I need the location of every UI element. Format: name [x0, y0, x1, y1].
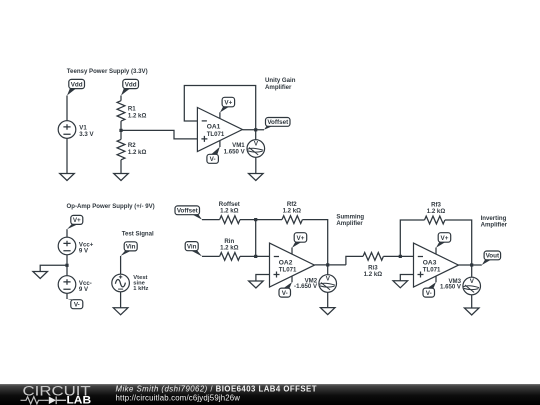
- wire Voffset to Roffset: [202, 219, 220, 221]
- svg-text:Op-Amp Power Supply (+/- 9V): Op-Amp Power Supply (+/- 9V): [67, 203, 155, 210]
- wire OA3 out to VM3: [471, 265, 473, 277]
- node flag V-: [423, 282, 436, 297]
- svg-text:R2: R2: [128, 142, 136, 149]
- svg-text:OA2: OA2: [279, 259, 293, 266]
- voltage source Vcc+: [58, 237, 94, 255]
- wire V1 to ground: [66, 138, 68, 173]
- svg-text:9 V: 9 V: [79, 286, 89, 293]
- resistor Roffset: [219, 201, 240, 223]
- svg-text:Test Signal: Test Signal: [122, 231, 154, 238]
- svg-text:Amplifier: Amplifier: [481, 222, 508, 229]
- voltmeter VM2: [294, 275, 336, 293]
- node flag Voffset: [175, 206, 202, 220]
- node junction OA2 out: [326, 263, 329, 266]
- svg-text:http://circuitlab.com/c6jydj59: http://circuitlab.com/c6jydj59jh26w: [116, 394, 241, 403]
- svg-text:R1: R1: [128, 106, 136, 113]
- svg-text:Vout: Vout: [486, 253, 500, 260]
- node flag V+: [67, 215, 83, 229]
- svg-text:1 kHz: 1 kHz: [133, 286, 148, 292]
- wire Vdd to V1: [66, 96, 68, 121]
- svg-text:Vdd: Vdd: [125, 81, 137, 88]
- svg-text:V+: V+: [224, 100, 232, 107]
- svg-text:1.2 kΩ: 1.2 kΩ: [220, 208, 239, 215]
- svg-text:1.650 V: 1.650 V: [224, 149, 246, 156]
- node flag V-: [67, 299, 83, 309]
- svg-text:Voffset: Voffset: [177, 208, 199, 215]
- wire OA3 V- pin: [435, 276, 437, 282]
- svg-text:1.2 kΩ: 1.2 kΩ: [283, 208, 302, 215]
- svg-text:1.2 kΩ: 1.2 kΩ: [364, 271, 383, 278]
- wire V+ to Vcc+: [66, 229, 68, 237]
- svg-text:TL071: TL071: [279, 267, 297, 274]
- svg-text:V-: V-: [282, 290, 288, 297]
- resistor R2: [117, 139, 146, 159]
- svg-text:V+: V+: [297, 235, 305, 242]
- node flag V+: [220, 97, 235, 112]
- ground: [114, 174, 129, 181]
- resistor Rin: [220, 238, 240, 260]
- voltmeter VM3: [440, 277, 481, 295]
- wire node down to inverting input: [255, 220, 257, 257]
- svg-text:Mike Smith (dshi79062) / BIOE6: Mike Smith (dshi79062) / BIOE6403 LAB4 O…: [116, 385, 317, 394]
- svg-text:Teensy Power Supply (3.3V): Teensy Power Supply (3.3V): [67, 68, 148, 75]
- wire R1 to R2: [120, 121, 122, 139]
- wire R2 to ground: [120, 160, 122, 174]
- svg-text:V-: V-: [210, 156, 216, 163]
- node junction OA3 inverting: [399, 255, 402, 258]
- wire OA2 V+ pin: [291, 248, 293, 255]
- ground: [249, 281, 264, 288]
- op-amp U-OA3: [414, 243, 459, 287]
- svg-text:1.650 V: 1.650 V: [440, 284, 462, 291]
- node junction OA2 inverting: [254, 255, 257, 258]
- voltage source V1: [58, 121, 94, 139]
- wire OA3 V+ pin: [435, 248, 437, 255]
- wire feedback OA1: [184, 86, 255, 130]
- resistor Rf2: [282, 201, 302, 223]
- svg-text:1.2 kΩ: 1.2 kΩ: [128, 113, 147, 120]
- node junction R1-R2: [119, 129, 122, 132]
- svg-text:-1.650 V: -1.650 V: [294, 283, 318, 290]
- node flag Vin: [121, 242, 138, 256]
- wire divider node to OA1 +: [121, 130, 197, 139]
- wire OA1 output: [242, 129, 264, 131]
- node flag V-: [207, 147, 220, 164]
- svg-text:1.2 kΩ: 1.2 kΩ: [220, 244, 239, 251]
- wire Vdd to R1: [120, 96, 122, 101]
- ground: [60, 174, 75, 181]
- voltage source Vtest (sine): [112, 274, 130, 292]
- svg-text:Amplifier: Amplifier: [265, 84, 292, 91]
- ground: [249, 174, 264, 181]
- node flag Voffset: [264, 118, 290, 130]
- wire Vin to Vtest: [120, 256, 122, 274]
- wire Vtest to ground: [120, 292, 122, 308]
- wire OA2 + to ground: [256, 275, 270, 282]
- wire Rf2 to OA2 output: [302, 220, 327, 265]
- node junction OA1 out: [254, 128, 257, 131]
- svg-text:OA3: OA3: [423, 259, 437, 266]
- svg-text:1.2 kΩ: 1.2 kΩ: [128, 149, 147, 156]
- svg-text:V+: V+: [441, 235, 449, 242]
- svg-text:3.3 V: 3.3 V: [79, 131, 94, 138]
- node flag Vdd: [121, 79, 139, 95]
- ground: [464, 308, 479, 315]
- wire feedback riser Rf3: [400, 220, 424, 256]
- wire OA1 V+ pin: [219, 112, 221, 118]
- node junction Roffset-Rf2: [254, 218, 257, 221]
- Vtest value labels: [133, 275, 148, 292]
- svg-text:Amplifier: Amplifier: [336, 220, 363, 227]
- svg-text:TL071: TL071: [423, 267, 441, 274]
- op-amp U-OA2: [270, 243, 315, 287]
- wire OA1 V- pin: [219, 141, 221, 148]
- wire VM3 to ground: [471, 295, 473, 308]
- ground: [113, 308, 128, 315]
- node flag Vout: [482, 251, 501, 265]
- wire OA3 + to ground: [400, 275, 413, 281]
- node flag Vdd: [67, 79, 85, 95]
- wire Vin to Rin: [202, 255, 220, 257]
- svg-text:Voffset: Voffset: [267, 119, 289, 126]
- resistor Ri3: [363, 252, 383, 277]
- svg-text:OA1: OA1: [207, 124, 221, 131]
- CircuitLab logo: [21, 383, 92, 405]
- svg-text:9 V: 9 V: [79, 247, 89, 254]
- svg-text:Vin: Vin: [187, 244, 197, 251]
- wire Vcc+ to Vcc-: [66, 255, 68, 276]
- wire OA2 output: [315, 264, 346, 266]
- wire OA3 output: [459, 264, 482, 266]
- resistor R1: [117, 101, 146, 121]
- node junction supply mid: [65, 264, 68, 267]
- ground: [393, 281, 408, 288]
- svg-text:V-: V-: [74, 302, 80, 309]
- node junction OA3 out: [470, 263, 473, 266]
- svg-text:TL071: TL071: [207, 131, 225, 138]
- wire Ri3 to OA3 -: [383, 255, 413, 257]
- wire OA2 V- pin: [291, 276, 293, 282]
- wire supply mid to ground: [40, 265, 67, 271]
- svg-text:V-: V-: [426, 290, 432, 297]
- node flag V+: [292, 233, 307, 248]
- wire Rin to OA2 -: [240, 255, 270, 257]
- ground: [33, 272, 48, 279]
- node flag V-: [279, 282, 292, 297]
- footer bar: [0, 384, 540, 405]
- node flag Vin: [185, 242, 202, 257]
- voltmeter VM1: [224, 140, 265, 158]
- wire Roffset to node: [240, 219, 282, 221]
- op-amp U-OA1: [197, 108, 242, 152]
- wire OA1 out to VM1: [255, 130, 257, 140]
- node flag V+: [436, 233, 451, 248]
- wire Rf3 to OA3 output: [445, 220, 472, 265]
- wire OA2 out to Ri3: [346, 256, 363, 265]
- wire Vcc- to V-: [66, 293, 68, 299]
- svg-text:LAB: LAB: [67, 394, 92, 405]
- svg-text:1.2 kΩ: 1.2 kΩ: [427, 208, 446, 215]
- svg-text:V+: V+: [73, 217, 81, 224]
- wire VM2 to ground: [327, 292, 329, 307]
- resistor Rf3: [425, 202, 446, 224]
- voltage source Vcc-: [58, 276, 92, 294]
- svg-text:Vdd: Vdd: [71, 81, 83, 88]
- svg-text:Vin: Vin: [126, 244, 136, 251]
- ground: [320, 308, 335, 315]
- wire VM1 to ground: [255, 157, 257, 173]
- wire OA2 out to VM2: [327, 265, 329, 275]
